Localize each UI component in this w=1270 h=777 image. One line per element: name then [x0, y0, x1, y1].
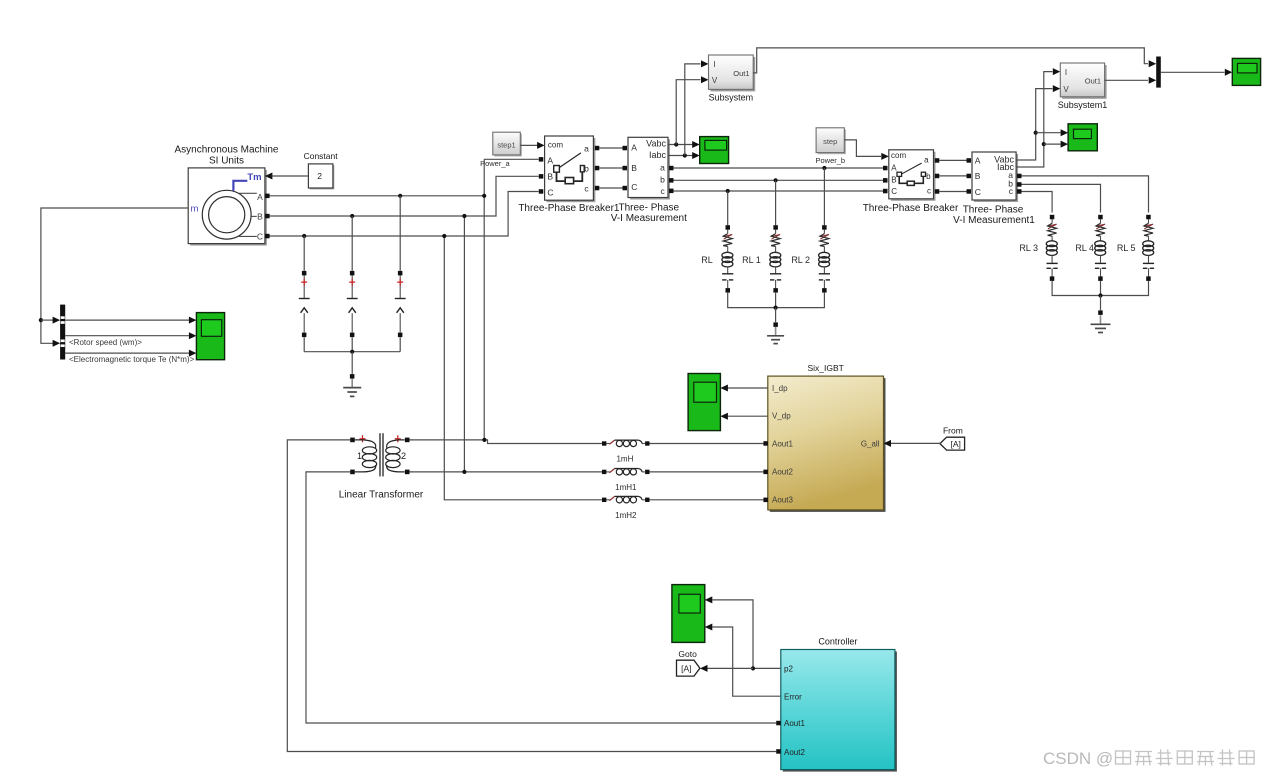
machine pin line C [239, 232, 263, 242]
wire VI1 Iabc output [668, 155, 693, 157]
value label 1mH2 [615, 511, 637, 520]
svg-text:C: C [547, 188, 553, 198]
svg-text:<Electromagnetic torque Te (N*: <Electromagnetic torque Te (N*m)> [69, 355, 195, 364]
VI2 port a [1017, 174, 1022, 179]
wire selector output 3 [65, 352, 189, 354]
svg-text:Aout1: Aout1 [784, 719, 805, 728]
ground (surge branches) [343, 379, 361, 397]
wire B phase riser [463, 216, 465, 472]
wire phase c to breaker2 C [673, 190, 883, 192]
svg-text:Goto: Goto [678, 649, 697, 659]
scope Scope (machine) [196, 313, 224, 360]
breaker2 port C [883, 189, 888, 194]
transformer winding label 1 [357, 451, 362, 461]
wire primary top to Aout2 [287, 440, 776, 752]
svg-text:Power_a: Power_a [480, 159, 510, 168]
svg-text:c: c [927, 187, 931, 196]
value label 1mH [616, 455, 633, 464]
surge arrester branch 3 (phase A) [395, 194, 406, 352]
breaker1 label c [584, 183, 589, 193]
transformer primary port 1 bottom [350, 470, 355, 475]
wire VI2 b to RL4 [1022, 184, 1101, 212]
junction RL345 common [1098, 293, 1102, 297]
wire A phase to breaker A [484, 158, 539, 160]
block label Asynchronous Machine SI Units [175, 145, 279, 167]
breaker1 com arrow [537, 142, 545, 149]
svg-text:I_dp: I_dp [772, 384, 788, 393]
wire machine C phase [270, 192, 539, 237]
subsystem1 block body [1060, 63, 1106, 99]
scope1 input arrows [692, 141, 700, 159]
VI2 label C [975, 187, 981, 197]
svg-text:c: c [661, 186, 666, 196]
svg-text:Power_b: Power_b [815, 156, 845, 165]
wire machine B phase [270, 176, 539, 216]
breaker1 switch icon [554, 153, 585, 184]
machine port A [265, 194, 270, 199]
wire surge to ground [351, 352, 353, 374]
RL 2 branch [819, 168, 830, 293]
breaker1 label b [584, 164, 589, 174]
svg-text:1: 1 [357, 451, 362, 461]
controller port Aout2 [776, 749, 781, 754]
machine rotor circles [202, 190, 251, 239]
subsystem1 label Out1 [1085, 76, 1101, 85]
block label Constant [304, 151, 339, 161]
mux bar [1156, 57, 1161, 88]
transformer secondary winding [386, 440, 405, 472]
asynchronous machine block body [188, 168, 267, 246]
VI2 port A [967, 158, 972, 163]
block label Three-Phase V-I Measurement1 [953, 205, 1035, 226]
VI2 label c [1009, 186, 1014, 196]
ground (RL loads) [767, 327, 784, 344]
wire mux to scope3 [1161, 71, 1225, 73]
VI2 label a [1008, 170, 1013, 180]
wire RL345 common bus [1052, 281, 1148, 296]
VI1 label A [631, 142, 637, 152]
scope Scope (Six_IGBT) [688, 374, 720, 431]
wire VI1 Vabc output [668, 144, 693, 146]
block label Power_a [480, 159, 510, 168]
svg-text:I: I [1065, 68, 1067, 77]
VI2 label A [975, 156, 981, 166]
six_igbt label V_dp [772, 412, 791, 421]
wire 1mH to Aout1 port [650, 443, 764, 445]
VI1 port A [623, 146, 628, 151]
breaker1 port B [539, 174, 544, 179]
svg-text:V: V [712, 76, 718, 85]
subsystem1 label I [1065, 68, 1067, 77]
VI2 label B [975, 171, 981, 181]
svg-text:<Rotor speed (wm)>: <Rotor speed (wm)> [69, 338, 142, 347]
wire secondary bottom to 1mH1 [410, 471, 603, 473]
svg-text:Aout2: Aout2 [772, 468, 793, 477]
junction RL tap [726, 189, 730, 193]
subsystem1 label V [1063, 85, 1069, 94]
watermark CSDN [1043, 749, 1254, 768]
wire RL4 to common [1100, 281, 1102, 296]
svg-text:1mH1: 1mH1 [615, 483, 637, 492]
wire 1mH1 to Aout2 port [650, 471, 764, 473]
subsystem label Out1 [733, 69, 749, 78]
VI2 label Vabc [994, 155, 1014, 165]
transformer secondary port 2 bottom [405, 470, 410, 475]
six_igbt port Aout1 [763, 441, 768, 446]
value label 1mH1 [615, 483, 637, 492]
scope Scope3 [1232, 58, 1260, 85]
VI1 label C [631, 182, 637, 192]
wire machine A phase [270, 195, 485, 197]
wire VI2 Iabc to Subsystem1 I [1016, 72, 1052, 167]
subsystem1 input arrows [1053, 68, 1061, 92]
machine pin line A [239, 192, 263, 202]
VI2 label b [1008, 179, 1013, 189]
svg-text:SI Units: SI Units [209, 156, 244, 167]
svg-text:B: B [257, 212, 263, 222]
breaker1 label com [548, 140, 563, 149]
transformer secondary port 2 top [405, 438, 410, 443]
svg-text:b: b [660, 174, 665, 184]
VI1 label a [660, 162, 665, 172]
six_igbt label Aout1 [772, 439, 793, 448]
wire Vabc2 to scope2 [1036, 132, 1061, 134]
block label Subsystem [709, 93, 754, 103]
svg-text:A: A [631, 142, 637, 152]
svg-text:A: A [547, 155, 553, 165]
svg-text:Aout1: Aout1 [772, 439, 793, 448]
controller subsystem body [781, 650, 897, 772]
wire m branch to selector input 1 [41, 319, 54, 321]
controller label Aout1 [784, 719, 805, 728]
wire breaker1 a to VI A [599, 147, 622, 149]
subsystem label V [712, 76, 718, 85]
breaker2 label B [891, 175, 896, 184]
svg-text:C: C [891, 187, 897, 196]
six_igbt label Aout2 [772, 468, 793, 477]
constant block C1 value 2 [308, 164, 334, 190]
wire Subsystem Out1 to mux [753, 48, 1148, 73]
svg-text:RL 5: RL 5 [1117, 243, 1136, 253]
RL 5 branch [1143, 215, 1154, 281]
svg-text:G_all: G_all [861, 439, 880, 448]
svg-text:RL 2: RL 2 [791, 255, 810, 265]
wire Vabc to Subsystem V [676, 80, 700, 145]
controller label Aout2 [784, 748, 805, 757]
block label Controller [818, 637, 857, 647]
VI1 label c [661, 186, 666, 196]
wire p2 to Goto [707, 667, 754, 669]
svg-text:Aout2: Aout2 [784, 748, 805, 757]
svg-text:B: B [631, 163, 637, 173]
scope Scope (machine) input arrows [189, 317, 197, 357]
signal label Rotor speed [69, 338, 142, 347]
machine label m [191, 204, 199, 215]
junction RL2 tap [822, 166, 826, 170]
from tag label [943, 426, 963, 436]
svg-text:RL: RL [701, 255, 713, 265]
wire selector output 2 [65, 335, 189, 337]
breaker2 label b [926, 172, 931, 181]
junction RL1 tap [774, 178, 778, 182]
machine port B [265, 214, 270, 219]
svg-text:C: C [257, 232, 263, 242]
svg-text:Out1: Out1 [1085, 76, 1101, 85]
surge arrester branch 2 (phase B) [347, 214, 358, 352]
svg-text:I: I [713, 60, 715, 69]
VI1 port b [669, 178, 674, 183]
block label Three-Phase V-I Measurement [611, 203, 687, 224]
RL345 ground port [1098, 310, 1103, 315]
svg-text:Asynchronous Machine: Asynchronous Machine [175, 145, 279, 156]
wire Subsystem1 Out1 to mux [1105, 79, 1148, 81]
block label Subsystem1 [1058, 100, 1108, 110]
scope2 input arrows [1061, 129, 1069, 147]
bus selector bar [60, 305, 65, 360]
breaker1 port C [539, 189, 544, 194]
controller label Error [784, 692, 802, 701]
junction Vabc [674, 142, 678, 146]
VI1 label b [660, 174, 665, 184]
junction Vabc2 [1034, 131, 1038, 135]
svg-text:Subsystem1: Subsystem1 [1058, 100, 1108, 110]
junction C phase [442, 234, 446, 238]
svg-text:V: V [1063, 85, 1069, 94]
junction Iabc2 [1042, 142, 1046, 146]
wire phase a to breaker2 A [673, 167, 883, 169]
RL 2 label [791, 255, 810, 265]
transformer winding label 2 [401, 451, 406, 461]
svg-text:From: From [943, 426, 963, 436]
six_igbt label I_dp [772, 384, 788, 393]
svg-text:Error: Error [784, 692, 802, 701]
goto arrow [700, 665, 708, 672]
transformer primary port 1 top [350, 438, 355, 443]
wire VI2 Vabc to Subsystem1 V [1016, 89, 1052, 160]
wire breaker2 b to VI2 B [939, 175, 966, 177]
svg-text:Iabc: Iabc [649, 150, 667, 160]
transformer polarity mark secondary [395, 435, 401, 442]
svg-text:2: 2 [317, 171, 322, 181]
block label Linear Transformer [339, 490, 424, 501]
svg-text:b: b [926, 172, 931, 181]
wire V_dp to scope [727, 415, 768, 417]
svg-text:Constant: Constant [304, 151, 339, 161]
RL 1 label [742, 255, 761, 265]
breaker2 label C [891, 187, 897, 196]
RL 3 label [1019, 243, 1038, 253]
signal label Electromagnetic torque [69, 355, 195, 364]
breaker2 port b [935, 174, 940, 179]
svg-text:CSDN @: CSDN @ [1043, 749, 1113, 768]
ground (RL345 loads) [1091, 315, 1111, 332]
mux input arrows [1149, 60, 1157, 84]
VI1 label B [631, 163, 637, 173]
machine port C [265, 234, 270, 239]
svg-text:C: C [631, 182, 637, 192]
svg-text:A: A [891, 163, 897, 172]
breaker1 port c [595, 186, 600, 191]
wire Iabc2 to scope2 [1044, 143, 1061, 145]
inductor 1mH2 [602, 496, 650, 503]
wire RL common to ground [775, 308, 777, 323]
inductor 1mH [602, 440, 650, 447]
svg-text:com: com [548, 140, 563, 149]
scope igbt input arrows [720, 385, 728, 420]
wire Iabc to Subsystem I [685, 64, 701, 156]
scope Scope (controller) arrows [705, 596, 713, 630]
wire I_dp to scope [727, 387, 768, 389]
controller label p2 [784, 665, 793, 674]
controller port Aout1 [776, 721, 781, 726]
svg-text:[A]: [A] [681, 663, 691, 673]
svg-text:[A]: [A] [950, 439, 960, 449]
breaker2 port B [883, 178, 888, 183]
RL 5 label [1117, 243, 1136, 253]
VI2 port b [1017, 182, 1022, 187]
svg-text:2: 2 [401, 451, 406, 461]
VI1 port c [669, 189, 674, 194]
junction secondary bottom [462, 470, 466, 474]
three-phase breaker2 body [889, 150, 936, 201]
junction p2 net [751, 666, 755, 670]
junction A phase [482, 194, 486, 198]
surge arrester branch 1 (phase C) [299, 234, 310, 352]
wire From to G_all [890, 442, 941, 444]
junction surge common [350, 350, 354, 354]
svg-text:a: a [924, 156, 929, 165]
bus selector input arrows [53, 317, 61, 347]
scope3 input arrow [1225, 69, 1233, 76]
wire selector output 1 [65, 319, 189, 321]
RL label [701, 255, 713, 265]
svg-text:Tm: Tm [247, 172, 261, 183]
svg-text:step: step [823, 137, 837, 146]
surge ground port [350, 374, 355, 379]
machine pin line B [251, 212, 263, 222]
svg-text:Six_IGBT: Six_IGBT [808, 363, 844, 373]
block label Three-Phase Breaker1 [518, 203, 620, 214]
wire 1mH2 to Aout3 port [650, 499, 764, 501]
RL 4 branch [1095, 215, 1106, 281]
svg-text:B: B [891, 175, 896, 184]
RL branch (series RLC load RL) [722, 191, 733, 293]
wire VI2 c to RL3 [1022, 192, 1053, 213]
svg-text:Out1: Out1 [733, 69, 749, 78]
VI1 label Vabc [646, 139, 666, 149]
goto tag [A] [677, 660, 700, 676]
VI2 port B [967, 174, 972, 179]
breaker1 label C [547, 188, 553, 198]
svg-text:RL 1: RL 1 [742, 255, 761, 265]
block label Power_b [815, 156, 845, 165]
svg-text:C: C [975, 187, 981, 197]
svg-text:A: A [257, 192, 263, 202]
svg-text:1mH2: 1mH2 [615, 511, 637, 520]
scope Scope (controller) [672, 585, 705, 643]
svg-text:RL 4: RL 4 [1075, 243, 1094, 253]
wire A phase riser [483, 159, 485, 440]
VI1 port C [623, 186, 628, 191]
svg-text:Aout3: Aout3 [772, 496, 793, 505]
wire RL common bus [728, 293, 825, 308]
breaker1 port a [595, 146, 600, 151]
svg-text:a: a [584, 143, 589, 153]
three-phase V-I measurement body [628, 137, 670, 199]
VI1 port B [623, 166, 628, 171]
wire VI2 a to RL5 [1022, 176, 1149, 213]
RL 3 branch [1046, 215, 1057, 281]
wire breaker2 c to VI2 C [939, 191, 966, 193]
machine input arrow Tm [265, 173, 273, 180]
wire breaker1 c to VI C [599, 187, 622, 189]
wire machine m output [41, 208, 188, 343]
svg-text:B: B [547, 171, 553, 181]
svg-text:com: com [891, 151, 906, 160]
svg-text:Three-Phase Breaker: Three-Phase Breaker [863, 203, 959, 214]
wire phase b to breaker2 B [673, 179, 883, 181]
VI1 label Iabc [649, 150, 667, 160]
breaker2 port A [883, 166, 888, 171]
three-phase V-I measurement1 body [972, 152, 1018, 202]
breaker2 switch icon [897, 163, 926, 185]
junction RL common [774, 306, 778, 310]
machine label Tm [247, 172, 261, 183]
breaker2 port a [935, 158, 940, 163]
wire Constant to Tm [272, 175, 309, 177]
block label Three-Phase Breaker [863, 203, 959, 214]
junction B phase [462, 214, 466, 218]
svg-text:V_dp: V_dp [772, 412, 791, 421]
breaker2 label a [924, 156, 929, 165]
VI2 port c [1017, 189, 1022, 194]
svg-text:Controller: Controller [818, 637, 857, 647]
svg-text:Vabc: Vabc [646, 139, 666, 149]
RL ground port [773, 322, 778, 327]
svg-text:a: a [660, 162, 665, 172]
wire controller Error net [712, 627, 781, 696]
six_igbt label Aout3 [772, 496, 793, 505]
wire step to breaker2 com [844, 140, 881, 157]
junction secondary top [482, 438, 486, 442]
transformer core [380, 433, 383, 476]
scope Scope1 (VI1) [700, 137, 729, 164]
VI2 label Iabc [997, 162, 1015, 172]
wire C phase riser [444, 236, 602, 500]
breaker2 label c [927, 187, 931, 196]
subsystem input arrows [701, 60, 709, 83]
breaker1 port b [595, 166, 600, 171]
svg-text:V-I Measurement1: V-I Measurement1 [953, 215, 1035, 226]
breaker1 label B [547, 171, 553, 181]
svg-text:step1: step1 [497, 140, 515, 149]
junction Iabc [683, 153, 687, 157]
wire RL1 to common [775, 293, 777, 308]
six_igbt port Aout2 [763, 470, 768, 475]
wire primary bottom to Aout1 [306, 472, 776, 723]
three-phase breaker1 body [545, 136, 596, 202]
step source Power_b [816, 128, 846, 154]
VI2 port C [967, 189, 972, 194]
junction m wire [39, 318, 43, 322]
wire surge common bus [304, 351, 400, 353]
six_igbt port Aout3 [763, 498, 768, 503]
breaker2 label com [891, 151, 906, 160]
breaker1 port A [539, 157, 544, 162]
inductor 1mH1 [602, 469, 650, 476]
G_all input arrow [884, 440, 892, 447]
transformer primary winding [355, 440, 377, 472]
